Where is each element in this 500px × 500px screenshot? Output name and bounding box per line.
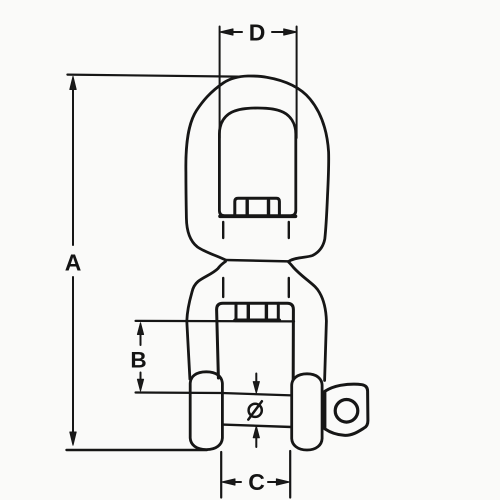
eye outer contour (top fitting body) [186,76,329,261]
jaw stem nut (hex head on collar) [236,303,278,320]
hidden stem dashed line right lower [288,278,290,297]
pin diameter top arrow [255,374,257,383]
diameter symbol circle [249,404,262,417]
hidden stem dashed line right upper [288,222,290,238]
jaw shoulder line (also B top extension) [136,320,294,323]
screw pin head hole [335,400,358,423]
svg-text:A: A [65,250,82,276]
jaw nut bold bottom [235,318,279,322]
svg-text:C: C [248,469,265,495]
eye inner arch (eye hole) [219,108,295,216]
eye stem nut (hex head in eye) [235,198,280,216]
dimension A line lower segment with down arrow [72,277,74,433]
left jaw boss (pill around pin) [190,372,222,450]
dimension D extension line left [219,27,221,139]
diameter symbol slash [248,401,262,419]
dimension A extension line bottom [67,449,208,451]
dimension D line left with arrow [232,31,242,33]
dimension C line right with arrow [268,481,277,483]
dimension D line right with arrow [272,31,284,33]
screw pin head lug [325,384,368,435]
pin bottom line [222,425,291,427]
eye stem nut bottom bold line [220,215,296,219]
eye nut face divider left [245,201,248,216]
svg-text:B: B [130,348,146,373]
right jaw boss (pill around pin) [292,374,322,450]
waist line (swivel joint) [226,260,289,261]
dimension C extension line right [289,451,291,498]
hidden stem dashed line left lower [222,278,224,297]
dimension C line left with arrow [235,481,242,483]
jaw outer contour right flare and leg [289,262,327,381]
jaw nut face divider right [265,305,268,319]
pin diameter bottom arrow [255,438,257,448]
dimension B line upper segment with up arrow [140,334,142,345]
dimension A line upper segment with up arrow [72,89,74,245]
eye nut face divider right [267,201,270,216]
pin top line (also B bottom extension) [136,393,292,396]
svg-text:D: D [249,20,266,46]
jaw collar outline [217,303,294,379]
jaw outer contour left flare and leg [187,262,226,380]
dimension A extension line top [67,75,238,77]
dimension B line lower segment with down arrow [140,373,142,381]
dimension D extension line right [296,27,298,139]
jaw nut face divider left [247,305,250,319]
dimension C extension line left [220,452,222,498]
hidden stem dashed line left upper [222,222,224,238]
